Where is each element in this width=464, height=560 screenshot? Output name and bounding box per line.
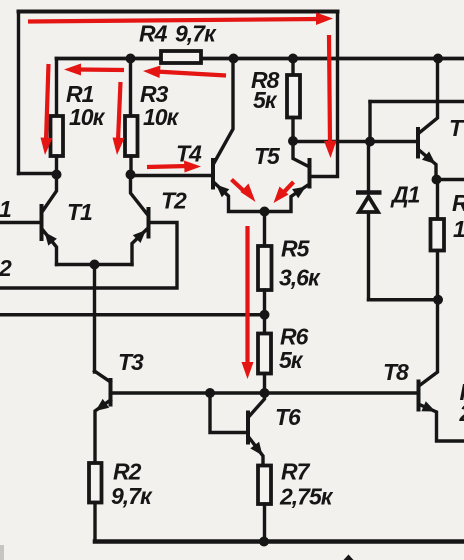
- red arrow down R3: [113, 82, 125, 155]
- wire node K right: [437, 178, 464, 181]
- svg-text:1к: 1к: [453, 216, 464, 242]
- svg-text:T7: T7: [449, 115, 464, 141]
- node D T4 T5 emitters: [260, 207, 270, 217]
- resistor R7: [258, 466, 271, 505]
- wire R3 top stub: [129, 59, 132, 117]
- resistor R9: [431, 180, 445, 300]
- svg-text:10к: 10к: [143, 104, 180, 130]
- node R8 bottom: [288, 136, 298, 146]
- node C common emitters: [90, 260, 100, 270]
- svg-text:T1: T1: [67, 199, 92, 225]
- svg-text:3,6к: 3,6к: [279, 265, 321, 291]
- wire T4 base: [131, 174, 212, 177]
- node A R1 bottom: [52, 170, 62, 180]
- node R3 top junction: [126, 54, 136, 64]
- wire diode to node J: [369, 298, 439, 301]
- red arrow diag into node D right: [274, 182, 294, 203]
- wire emitter join T1 T2: [57, 263, 133, 266]
- red arrow left under R4 right: [143, 66, 226, 79]
- transistor T2: [131, 175, 149, 265]
- svg-text:R9: R9: [452, 190, 464, 216]
- node H R7 ground: [259, 537, 269, 547]
- wire R1 top stub: [55, 59, 58, 117]
- svg-text:R5: R5: [281, 236, 311, 262]
- red arrow right to T4: [147, 161, 201, 173]
- svg-text:2: 2: [0, 255, 12, 281]
- wire T5 base to top rail: [310, 12, 338, 177]
- resistor R2: [89, 463, 102, 503]
- svg-text:R4: R4: [139, 21, 168, 47]
- wire R3 bottom stub: [129, 156, 132, 175]
- node I bias line: [365, 137, 375, 147]
- corner smudge: [0, 545, 4, 560]
- svg-text:T5: T5: [254, 143, 281, 169]
- svg-text:Д1: Д1: [390, 182, 420, 208]
- transistor T5: [265, 141, 310, 212]
- wire ground rail: [95, 539, 464, 544]
- wire R7 to ground rail: [263, 504, 266, 542]
- wire top rail frame: [19, 10, 338, 14]
- wire main supply rail: [57, 57, 464, 61]
- resistor R5: [258, 246, 272, 290]
- svg-text:1: 1: [0, 196, 11, 222]
- resistor R1: [51, 116, 64, 156]
- resistor R8: [287, 59, 300, 142]
- wire R8 to T7 base: [293, 140, 418, 143]
- red arrow left under R4 left: [64, 64, 124, 76]
- wire upper right rail: [370, 100, 464, 103]
- svg-text:R2: R2: [113, 459, 142, 485]
- svg-text:R6: R6: [280, 324, 309, 350]
- svg-text:2,2к: 2,2к: [459, 400, 464, 426]
- red arrow down right T5: [324, 35, 337, 158]
- svg-text:9,7к: 9,7к: [175, 21, 217, 47]
- node K T7 emitter: [432, 175, 442, 185]
- wire left frame vertical: [17, 12, 20, 174]
- transistor T8: [419, 300, 464, 441]
- svg-text:5к: 5к: [253, 87, 278, 113]
- transistor T4: [213, 59, 265, 212]
- wire R5 to node E: [263, 290, 266, 334]
- bottom tick mark: [344, 555, 354, 560]
- svg-text:T4: T4: [176, 141, 202, 167]
- svg-text:R7: R7: [281, 459, 311, 485]
- node T4 collector on rail: [229, 54, 239, 64]
- red arrow down left R1: [41, 64, 53, 155]
- node J: [433, 295, 443, 305]
- transistor T3: [95, 371, 111, 463]
- wire input 1 to T1 base: [0, 221, 40, 224]
- node E R5 R6 junction: [260, 310, 270, 320]
- svg-text:T3: T3: [118, 349, 144, 375]
- node R8 top on rail: [288, 54, 298, 64]
- svg-text:2,75к: 2,75к: [279, 484, 334, 510]
- wire long base rail: [111, 391, 418, 394]
- node G R6 bottom: [260, 388, 270, 398]
- resistor R4: [161, 51, 201, 63]
- wire feedback line: [0, 313, 265, 316]
- wire bias vertical: [368, 102, 371, 142]
- red arrow top rail: [28, 13, 333, 26]
- svg-text:T8: T8: [383, 359, 409, 385]
- wire T2 base loop to input 2: [0, 223, 177, 289]
- svg-text:9,7к: 9,7к: [111, 483, 153, 509]
- svg-text:T6: T6: [275, 404, 301, 430]
- transistor T6: [210, 393, 265, 466]
- svg-text:5к: 5к: [279, 347, 304, 373]
- transistor T7: [418, 59, 438, 180]
- wire left frame to node A: [19, 172, 57, 175]
- svg-text:T2: T2: [161, 188, 187, 214]
- diode D1: [356, 142, 382, 300]
- transistor T1: [42, 175, 57, 265]
- wire tail down to T3: [93, 265, 96, 373]
- red arrow down middle to T6: [242, 226, 254, 379]
- resistor R3: [125, 116, 138, 156]
- wire node D to R5: [263, 212, 266, 247]
- node F T6 base tap: [205, 388, 215, 398]
- resistor R6: [258, 334, 271, 374]
- wire R2 to ground rail: [93, 503, 96, 542]
- red arrow diag into node D left: [232, 180, 256, 203]
- wire R6 bottom: [263, 374, 266, 394]
- wire R1 bottom stub: [55, 156, 58, 175]
- node B R3 bottom: [126, 170, 136, 180]
- svg-text:10к: 10к: [69, 104, 106, 130]
- node T7 collector on rail: [433, 54, 443, 64]
